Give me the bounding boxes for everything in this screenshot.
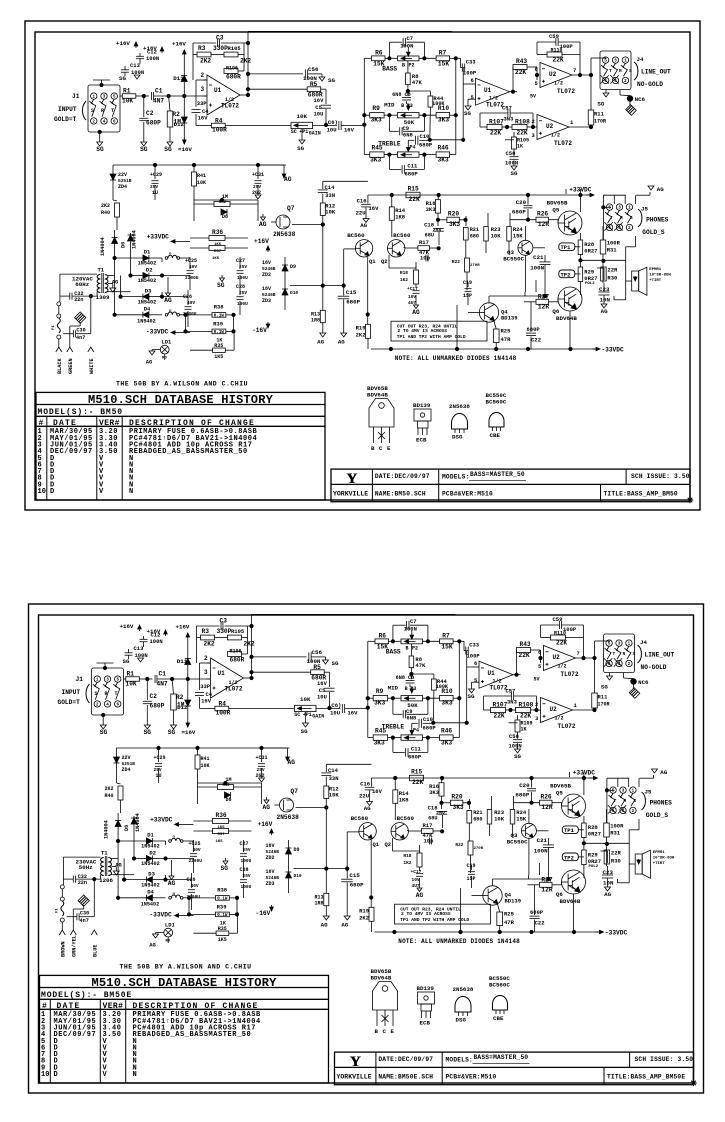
svg-text:16V: 16V [372,788,383,795]
svg-text:LINE_OUT: LINE_OUT [645,652,675,659]
svg-text:15K: 15K [516,816,527,823]
svg-text:T: T [111,108,114,114]
svg-text:B: B [371,445,375,452]
svg-text:1N4004: 1N4004 [104,820,110,839]
svg-text:U1: U1 [214,87,222,94]
svg-text:=16V: =16V [182,729,196,736]
svg-text:MID: MID [388,685,399,692]
svg-text:C21: C21 [533,254,544,261]
svg-text:2K2: 2K2 [101,203,110,209]
svg-text:10K: 10K [491,233,502,240]
svg-text:2K2: 2K2 [359,915,369,922]
svg-text:+16V: +16V [176,624,190,631]
svg-text:C10: C10 [420,133,430,140]
svg-text:D2: D2 [146,267,153,274]
svg-text:10N: 10N [603,880,614,887]
svg-text:6N8: 6N8 [396,675,405,681]
svg-text:C33: C33 [466,59,477,66]
svg-text:10K: 10K [329,792,340,799]
svg-text:Q7: Q7 [287,205,295,212]
svg-text:AG: AG [338,338,345,345]
svg-text:TP1: TP1 [561,244,572,251]
svg-text:TL072: TL072 [221,103,239,110]
svg-text:C2: C2 [146,110,154,117]
svg-text:AG: AG [321,921,328,928]
svg-text:POL2: POL2 [585,282,595,286]
svg-text:15P: 15P [463,293,472,299]
svg-text:DATE: DATE [57,1002,81,1011]
svg-text:S: S [634,798,637,804]
svg-text:BASS: BASS [382,65,397,72]
svg-text:R27: R27 [541,877,552,884]
svg-text:2: 2 [204,655,208,662]
svg-text:BLUE: BLUE [93,945,99,957]
svg-text:R19: R19 [356,325,366,332]
svg-text:22R: 22R [611,849,622,856]
svg-text:2K2: 2K2 [356,332,366,339]
svg-text:0.1W: 0.1W [217,898,228,902]
svg-text:C15: C15 [346,289,357,296]
svg-text:AG: AG [317,338,324,345]
svg-text:SG: SG [217,282,225,289]
svg-text:U2: U2 [546,123,554,130]
svg-text:+33VDC: +33VDC [150,817,173,824]
svg-text:ECB: ECB [416,437,427,444]
svg-text:D10: D10 [294,873,302,879]
svg-text:R36: R36 [212,229,223,236]
svg-text:V: V [103,1071,108,1079]
svg-text:D6: D6 [124,825,130,831]
svg-text:R: R [101,108,104,114]
svg-text:R46: R46 [441,728,452,735]
svg-text:R30: R30 [607,275,617,282]
svg-text:R4: R4 [219,701,227,708]
svg-text:DEC/09/97: DEC/09/97 [54,1031,97,1039]
svg-text:10: 10 [41,1071,49,1079]
svg-text:R2: R2 [172,111,180,118]
svg-text:DESCRIPTION OF CHANGE: DESCRIPTION OF CHANGE [129,419,255,428]
svg-text:U1: U1 [218,670,226,677]
svg-text:10U: 10U [327,127,337,134]
svg-text:C22: C22 [531,337,541,344]
svg-text:Q5: Q5 [556,790,563,797]
svg-text:R107: R107 [489,119,504,126]
svg-text:MID: MID [384,102,395,109]
svg-text:C19: C19 [463,280,472,286]
svg-text:100N: 100N [146,55,159,62]
svg-text:4n7: 4n7 [80,918,89,924]
svg-text:15K: 15K [441,643,452,650]
svg-text:22n: 22n [74,297,83,303]
svg-text:AG: AG [657,186,664,193]
svg-text:270R: 270R [470,264,480,268]
svg-text:ZD4: ZD4 [122,767,131,773]
svg-text:2N5638: 2N5638 [453,986,474,993]
svg-text:+16V: +16V [258,821,273,828]
svg-text:10p: 10p [424,838,435,845]
svg-text:GOLD_S: GOLD_S [646,812,669,819]
svg-text:YORKVILLE: YORKVILLE [337,1074,372,1081]
svg-text:GREEN: GREEN [68,358,74,374]
svg-text:R20: R20 [448,211,459,218]
svg-text:C58: C58 [509,733,520,740]
svg-text:BDV64B: BDV64B [371,975,392,982]
svg-text:SG: SG [168,729,176,736]
svg-text:VER#: VER# [99,419,120,428]
svg-text:MODELS:: MODELS: [446,1057,473,1064]
svg-text:100K: 100K [432,101,445,107]
svg-text:2K2: 2K2 [240,58,251,65]
svg-text:10V: 10V [412,877,420,883]
svg-text:22K: 22K [520,713,531,720]
svg-text:D: D [50,488,55,496]
svg-text:ZD4: ZD4 [118,184,127,190]
svg-text:D3: D3 [148,870,155,877]
svg-text:AG: AG [360,222,367,229]
svg-text:22n: 22n [78,880,87,886]
svg-text:ZD3: ZD3 [262,298,271,304]
svg-text:T1: T1 [98,267,105,274]
svg-text:P2: P2 [409,63,415,69]
svg-text:D12: D12 [174,121,185,128]
svg-text:TL072: TL072 [561,671,579,678]
svg-text:GAIN: GAIN [312,714,324,720]
svg-text:R: R [619,68,622,74]
svg-text:AG: AG [412,309,420,316]
svg-text:R3: R3 [202,628,210,635]
svg-text:AG: AG [604,891,611,898]
svg-text:NC6: NC6 [635,96,646,103]
svg-text:NO-GOLD: NO-GOLD [641,664,667,671]
svg-text:ZD2: ZD2 [266,855,275,861]
svg-text:Y: Y [350,1054,361,1070]
svg-text:R15: R15 [408,186,419,193]
svg-text:22V: 22V [122,755,131,761]
svg-text:22K: 22K [490,130,501,137]
svg-text:R20: R20 [451,794,462,801]
svg-text:R2: R2 [176,694,184,701]
svg-text:3K3: 3K3 [374,699,385,706]
svg-text:C30: C30 [76,327,85,333]
svg-text:2200U: 2200U [185,275,199,281]
svg-text:AG: AG [259,221,267,228]
svg-text:D4: D4 [147,889,154,896]
svg-text:S: S [630,215,633,221]
svg-text:680P: 680P [423,724,437,731]
svg-text:1R8: 1R8 [311,318,320,324]
svg-text:R30: R30 [611,858,621,865]
svg-text:C30: C30 [80,910,89,916]
svg-text:SG: SG [332,660,339,667]
svg-text:R106: R106 [226,66,238,72]
svg-text:15K: 15K [513,233,524,240]
svg-text:2 TO 4MV IS ACROSS: 2 TO 4MV IS ACROSS [398,328,448,334]
svg-text:3N3: 3N3 [504,116,515,123]
svg-text:R110: R110 [554,631,566,637]
svg-text:TP1: TP1 [564,827,575,834]
svg-text:C3: C3 [216,35,224,42]
svg-text:2N5638: 2N5638 [277,814,300,821]
svg-text:+TIRT: +TIRT [649,279,662,283]
svg-text:TITLE:BASS_AMP_BM50E: TITLE:BASS_AMP_BM50E [607,1074,685,1081]
svg-text:100N: 100N [400,43,413,50]
svg-text:P4: P4 [413,728,419,734]
svg-text:10K: 10K [325,209,336,216]
svg-text:BD139: BD139 [417,985,435,992]
svg-text:F1: F1 [56,908,60,913]
svg-text:10N: 10N [600,297,611,304]
svg-text:T1: T1 [101,850,108,857]
svg-text:SG: SG [123,658,130,665]
svg-text:R9: R9 [372,105,380,112]
svg-text:10K: 10K [197,180,206,186]
svg-text:MODEL(S):- BM50: MODEL(S):- BM50 [38,408,124,417]
svg-text:C1: C1 [159,671,167,678]
svg-text:C20: C20 [516,199,527,206]
svg-text:5V: 5V [530,94,536,100]
svg-text:TL072: TL072 [558,723,576,730]
svg-text:D2: D2 [149,850,156,857]
svg-text:REBADGED_AS_BASSMASTER_50: REBADGED_AS_BASSMASTER_50 [133,1031,252,1039]
svg-text:C13: C13 [134,645,145,652]
svg-text:EPMR1: EPMR1 [653,851,666,855]
svg-text:R5: R5 [310,81,318,88]
svg-text:3K3: 3K3 [426,206,437,213]
svg-text:PCB#&VER:M510: PCB#&VER:M510 [442,491,493,498]
svg-text:R15: R15 [411,769,422,776]
svg-text:THE 50B BY A.WILSON AND C.CHIU: THE 50B BY A.WILSON AND C.CHIU [119,964,251,971]
svg-text:1N5402: 1N5402 [141,861,160,867]
svg-text:6N8: 6N8 [392,92,401,98]
svg-text:100U: 100U [237,275,248,281]
svg-text:-33VDC: -33VDC [601,347,624,354]
svg-text:+16V: +16V [172,41,186,48]
svg-text:TL072: TL072 [557,88,575,95]
svg-text:1K: 1K [517,144,523,150]
svg-text:EPMR1: EPMR1 [649,268,662,272]
svg-text:2: 2 [535,701,538,708]
svg-text:1/2: 1/2 [555,716,564,722]
svg-text:22U: 22U [359,793,369,800]
svg-text:#: # [42,1002,47,1011]
svg-text:C27: C27 [236,258,245,264]
svg-text:1K5: 1K5 [218,826,226,830]
svg-text:Q5: Q5 [552,207,559,214]
svg-text:WHITE: WHITE [89,358,95,374]
svg-text:SG: SG [297,145,304,152]
svg-text:LD1: LD1 [165,922,176,929]
svg-text:16V: 16V [266,843,275,849]
svg-text:33P: 33P [197,100,208,107]
svg-text:R110: R110 [551,48,563,54]
svg-text:P2: P2 [412,646,418,652]
svg-text:R38: R38 [214,304,225,311]
svg-text:-16V: -16V [252,327,267,334]
svg-text:S: S [91,108,94,114]
svg-text:SG: SG [221,865,229,872]
svg-text:M510.SCH DATABASE HISTORY: M510.SCH DATABASE HISTORY [88,393,274,407]
svg-text:R22: R22 [452,259,460,265]
svg-text:Q1: Q1 [369,258,376,265]
svg-text:BASS: BASS [386,648,401,655]
svg-text:NOTE: ALL UNMARKED DIODES 1N41: NOTE: ALL UNMARKED DIODES 1N4148 [398,938,520,945]
svg-text:16V: 16V [201,698,212,705]
svg-text:100N: 100N [505,160,518,167]
svg-text:BC560C: BC560C [489,982,510,989]
svg-text:16V: 16V [369,205,380,212]
svg-text:+P1: +P1 [299,129,308,135]
svg-text:AG: AG [660,769,667,776]
svg-text:AG: AG [601,308,608,315]
svg-text:C59: C59 [553,616,563,623]
svg-text:+16V: +16V [254,238,269,245]
svg-text:4N7: 4N7 [157,681,168,688]
svg-text:R37: R37 [214,250,222,254]
svg-text:AG: AG [168,880,176,887]
svg-text:15K: 15K [438,60,449,67]
svg-text:R108: R108 [515,119,530,126]
svg-text:1K2: 1K2 [400,277,408,283]
svg-text:B: B [401,103,404,109]
svg-text:10K: 10K [122,98,133,105]
svg-text:1K5: 1K5 [218,937,227,943]
svg-text:100U: 100U [237,301,248,307]
svg-text:1N5402: 1N5402 [137,318,156,324]
svg-text:22V: 22V [118,172,127,178]
svg-text:1/2: 1/2 [551,133,560,139]
svg-text:BD139: BD139 [501,314,518,321]
svg-text:B: B [406,646,409,652]
svg-text:TP1 AND TP2 WITH AMP COLD: TP1 AND TP2 WITH AMP COLD [397,334,466,340]
svg-text:1N5402: 1N5402 [141,901,160,907]
svg-text:10K: 10K [300,696,311,703]
svg-text:0R27: 0R27 [588,831,601,838]
svg-text:SG: SG [468,693,475,700]
svg-text:BDV65B: BDV65B [547,200,568,207]
svg-text:R: R [105,691,108,697]
svg-text:TP2: TP2 [561,271,571,278]
svg-text:330P: 330P [213,45,228,52]
svg-text:DATE:DEC/09/97: DATE:DEC/09/97 [375,473,430,480]
svg-text:NO-GOLD: NO-GOLD [637,81,663,88]
svg-text:R40: R40 [104,793,113,799]
svg-text:T: T [613,651,616,657]
svg-text:1N5402: 1N5402 [138,278,157,284]
svg-text:U2: U2 [550,706,558,713]
svg-text:10K: 10K [494,816,505,823]
svg-text:6: 6 [474,660,477,667]
svg-text:10U: 10U [330,710,340,717]
svg-text:N: N [133,1071,138,1079]
svg-text:4N7: 4N7 [153,98,164,105]
svg-text:3: 3 [201,86,205,93]
svg-text:10K: 10K [126,681,137,688]
svg-text:POL2: POL2 [589,865,599,869]
svg-text:1206: 1206 [99,877,113,884]
svg-text:P3: P3 [410,686,416,692]
svg-text:C19: C19 [467,863,476,869]
svg-text:INPUT: INPUT [58,106,77,113]
svg-text:R37: R37 [218,833,226,837]
svg-text:LD1: LD1 [161,339,172,346]
svg-text:C26: C26 [187,877,196,883]
svg-text:100U: 100U [241,884,252,890]
svg-text:680P: 680P [530,909,544,916]
svg-text:C26: C26 [183,294,192,300]
svg-text:10: 10 [38,488,46,496]
svg-text:+TIRT: +TIRT [653,862,666,866]
svg-text:3K3: 3K3 [449,221,460,228]
svg-text:SC: SC [291,129,297,135]
svg-text:2: 2 [201,72,205,79]
svg-text:SG: SG [301,728,308,735]
svg-text:C28: C28 [240,867,249,873]
svg-text:1K5: 1K5 [216,840,224,844]
svg-text:MODELS:: MODELS: [442,474,469,481]
svg-text:C1: C1 [155,88,163,95]
svg-text:U2: U2 [553,654,561,661]
svg-text:10"8R-8OH: 10"8R-8OH [649,273,671,278]
svg-text:U1: U1 [484,87,492,94]
svg-text:R6: R6 [375,50,383,57]
svg-text:7: 7 [577,650,580,657]
svg-text:SG: SG [144,729,152,736]
svg-text:10U: 10U [314,110,324,117]
svg-text:22K: 22K [494,713,505,720]
svg-text:16V: 16V [348,710,359,717]
svg-text:1K5: 1K5 [214,243,222,247]
svg-text:Q6: Q6 [552,308,559,315]
svg-text:3K3: 3K3 [429,789,440,796]
svg-text:R18: R18 [403,853,411,859]
svg-text:10K: 10K [201,763,210,769]
svg-text:100R: 100R [216,710,231,717]
svg-text:C: C [379,445,383,452]
svg-text:BROWN: BROWN [61,941,67,957]
svg-text:1R8: 1R8 [314,901,323,907]
svg-text:DATE: DATE [53,419,77,428]
svg-text:BC560C: BC560C [486,399,507,406]
svg-text:7: 7 [573,67,576,74]
svg-text:680: 680 [473,816,482,822]
svg-text:AG: AG [263,804,271,811]
svg-text:TP1 AND TP2 WITH AMP COLD: TP1 AND TP2 WITH AMP COLD [400,917,469,923]
svg-text:T: T [610,215,613,221]
svg-text:22U: 22U [356,210,366,217]
svg-text:R31: R31 [610,830,621,837]
svg-text:C22: C22 [535,920,545,927]
svg-text:SG: SG [140,146,148,153]
svg-text:NOTE: ALL UNMARKED DIODES 1N41: NOTE: ALL UNMARKED DIODES 1N4148 [395,355,517,362]
svg-text:C11: C11 [411,746,422,753]
svg-text:680R: 680R [230,657,245,664]
svg-text:R18: R18 [400,270,408,276]
svg-text:=16V: =16V [178,146,192,153]
svg-text:R31: R31 [607,247,618,254]
svg-text:1K8: 1K8 [399,796,410,803]
svg-text:B: B [375,1028,379,1035]
svg-text:100N: 100N [150,638,163,645]
svg-text:680P: 680P [408,753,422,760]
svg-text:D3: D3 [145,287,152,294]
svg-text:1K2: 1K2 [403,860,411,866]
svg-text:2: 2 [532,118,535,125]
svg-text:DSG: DSG [456,1017,467,1024]
svg-text:D6: D6 [121,242,127,248]
svg-text:100U: 100U [241,858,252,864]
svg-text:C13: C13 [130,62,141,69]
svg-text:SG: SG [119,75,126,82]
